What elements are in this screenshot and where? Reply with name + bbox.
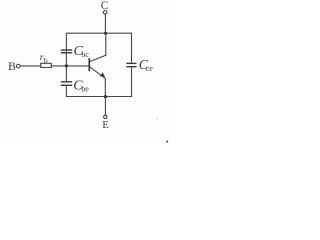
wire C_be to bottom-left corner and bottom rail xyxy=(66,85,131,96)
emitter arrowhead xyxy=(100,72,105,77)
wire C_bc up to top-left corner xyxy=(66,33,131,50)
wire resistor to base bar xyxy=(51,65,89,67)
svg-text:ce: ce xyxy=(146,64,154,73)
svg-text:be: be xyxy=(81,84,89,93)
terminal E circle xyxy=(104,115,107,118)
terminal E lead xyxy=(104,97,106,116)
right branch upper wire xyxy=(131,33,133,63)
stray speck bottom right xyxy=(166,141,168,143)
wire B to resistor xyxy=(20,65,40,67)
terminal C circle xyxy=(103,11,107,15)
capacitor C_be plates xyxy=(62,81,72,83)
svg-text:bc: bc xyxy=(81,50,89,59)
node X junction dot xyxy=(65,64,68,67)
svg-text:C: C xyxy=(101,0,109,12)
transistor Q1 base bar xyxy=(88,59,90,71)
capacitor C_ce plates xyxy=(127,62,136,64)
faint smudge xyxy=(156,117,158,119)
emitter lead vertical xyxy=(104,79,106,97)
collector lead vertical xyxy=(105,33,107,55)
terminal B circle xyxy=(16,64,20,68)
svg-text:b: b xyxy=(44,56,48,65)
right branch lower wire xyxy=(131,67,133,97)
emitter diagonal xyxy=(90,67,105,79)
capacitor C_bc plates xyxy=(62,49,72,51)
terminal C lead xyxy=(104,14,106,33)
svg-text:E: E xyxy=(102,119,109,131)
wire node X up to C_bc xyxy=(65,51,67,66)
wire node X down to C_be xyxy=(65,66,67,82)
svg-text:B: B xyxy=(8,59,16,73)
junction dot bottom rail xyxy=(104,95,107,98)
junction dot top rail xyxy=(104,32,107,35)
resistor r_b xyxy=(41,63,52,67)
collector diagonal xyxy=(90,55,106,61)
